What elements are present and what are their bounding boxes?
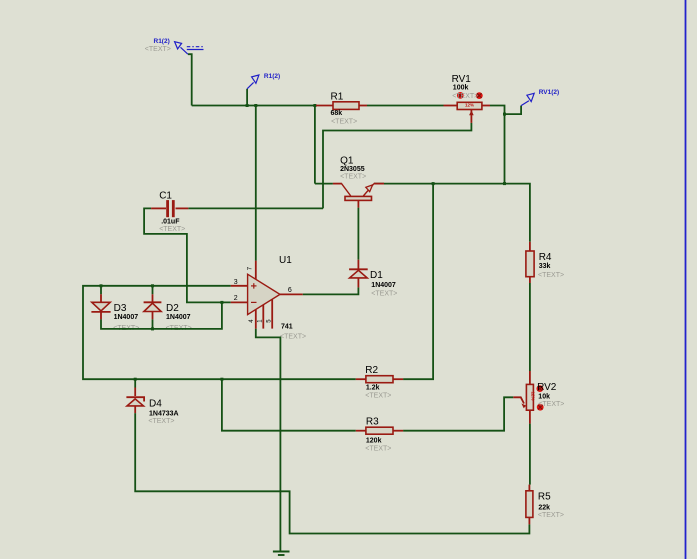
svg-text:D2: D2 [166,303,179,314]
svg-text:741: 741 [281,324,293,331]
svg-text:<TEXT>: <TEXT> [371,291,397,298]
svg-text:<TEXT>: <TEXT> [148,418,174,425]
svg-text:R1(2): R1(2) [154,38,170,45]
svg-text:.01uF: .01uF [161,219,180,226]
svg-text:U1: U1 [279,255,292,266]
svg-text:<TEXT>: <TEXT> [280,334,306,341]
svg-text:2: 2 [234,295,238,302]
svg-text:10k: 10k [538,393,550,400]
svg-text:<TEXT>: <TEXT> [340,173,366,180]
svg-text:RV1(2): RV1(2) [539,89,559,96]
svg-text:22k: 22k [538,504,550,511]
svg-text:<TEXT>: <TEXT> [538,272,564,279]
svg-text:6: 6 [288,287,292,294]
svg-text:<TEXT>: <TEXT> [365,445,391,452]
svg-text:<TEXT>: <TEXT> [538,401,564,408]
svg-text:Q1: Q1 [340,155,354,166]
svg-text:C1: C1 [159,191,172,202]
svg-text:<TEXT>: <TEXT> [145,46,171,53]
svg-text:D4: D4 [149,398,162,409]
svg-text:3: 3 [234,279,238,286]
svg-text:1N4007: 1N4007 [371,282,396,289]
svg-text:R2: R2 [365,365,378,376]
svg-text:<TEXT>: <TEXT> [452,93,478,100]
svg-text:R1: R1 [331,92,344,103]
svg-text:RV2: RV2 [537,382,557,393]
svg-text:R3: R3 [366,417,379,428]
svg-text:R1(2): R1(2) [264,73,280,80]
svg-text:12%: 12% [465,103,474,108]
svg-text:1.2k: 1.2k [366,384,380,391]
svg-text:1N4733A: 1N4733A [149,411,179,418]
svg-text:1N4007: 1N4007 [114,314,139,321]
svg-text:12%: 12% [531,392,536,401]
svg-text:<TEXT>: <TEXT> [538,512,564,519]
svg-text:D3: D3 [114,303,127,314]
svg-text:<TEXT>: <TEXT> [365,392,391,399]
svg-text:R5: R5 [538,491,551,502]
svg-text:120k: 120k [366,438,382,445]
svg-text:100k: 100k [453,85,469,92]
svg-text:RV1: RV1 [452,74,472,85]
svg-text:R4: R4 [539,252,552,263]
svg-text:33k: 33k [539,263,551,270]
svg-text:<TEXT>: <TEXT> [159,226,185,233]
svg-text:<TEXT>: <TEXT> [331,119,357,126]
svg-text:68k: 68k [331,110,343,117]
svg-text:2N3055: 2N3055 [340,166,365,173]
svg-text:1N4007: 1N4007 [166,314,191,321]
svg-text:D1: D1 [370,270,383,281]
